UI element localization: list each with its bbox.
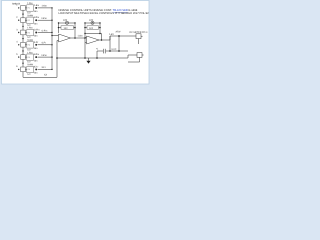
wire sense tap [118,36,120,51]
top rail U2 [85,33,102,40]
wire U2 inverting input down [84,38,86,58]
transistor Q4 [34,41,39,50]
wire U1 inverting input down [57,40,59,42]
svg-text:1-8V: 1-8V [109,33,114,36]
svg-text:InFm: InFm [42,17,47,20]
svg-text:8m: 8m [34,22,37,25]
terminal TB2 [137,53,144,58]
svg-text:DC METER PO 4: DC METER PO 4 [130,31,149,34]
wire U2 output [99,33,136,41]
op-amp U1 [59,34,71,42]
page background [0,0,152,86]
wire channel 6 to bus [38,66,52,69]
terminal TB1 [136,34,143,44]
wire channel 2 to bus [38,17,52,20]
svg-text:O.Fm: O.Fm [34,29,40,32]
title line 1 [59,9,138,12]
title line 2 [59,12,150,15]
wire U2 noninverting input [85,37,87,39]
resistor R8 [84,26,100,30]
module K4 [26,39,34,51]
left bus segment 3 [22,35,23,42]
feedback rail right U1 [74,23,76,38]
svg-text:InFm: InFm [34,16,39,19]
wire rail to TB2 [128,55,137,58]
left bus segment 5 [22,60,23,67]
svg-text:8m: 8m [34,35,37,38]
svg-text:TAFR: TAFR [27,39,33,42]
node bus taps U1 [51,35,58,36]
capacitor C1 [96,48,128,54]
connector J5 [16,53,25,60]
svg-text:XX r: XX r [42,66,47,69]
left bus segment 1 [22,10,23,17]
svg-text:8m: 8m [34,10,37,13]
svg-text:ATF: ATF [89,19,94,22]
wire channel 1 to bus [38,5,52,8]
op-amp U2 [87,36,100,44]
svg-text:TAFR: TAFR [27,64,33,67]
connector J6 [16,65,25,72]
svg-text:S.Fr: S.Fr [34,41,39,44]
left bus to bottom rail [23,72,57,78]
svg-text:1-8m: 1-8m [42,5,47,8]
wire TB2 return [128,57,140,62]
svg-text:1.8m: 1.8m [78,34,83,37]
wire channel 4 to bus [38,42,52,45]
wire output tap [109,36,111,51]
svg-text:8m: 8m [34,59,37,62]
ground rail [56,57,128,59]
svg-text:ATF: ATF [63,19,68,22]
transistor Q2 [34,16,39,25]
svg-text:LOW INPUT MULTIPLEX EXCEL CONT: LOW INPUT MULTIPLEX EXCEL CONTROLS PITTS… [59,12,150,15]
left bus segment 4 [22,47,23,54]
svg-text:XX: XX [44,74,48,77]
node DC out [116,31,122,37]
svg-text:O.Fm: O.Fm [42,29,48,32]
transistor Q3 [34,29,40,38]
feedback rail left U2 [84,23,86,39]
svg-text:ATW: ATW [116,31,122,34]
ground [86,58,90,64]
left bus segment 2 [22,23,23,30]
module K3 [26,27,34,39]
connector J1 [16,4,25,11]
resistor R7 [58,26,76,30]
svg-text:+(: +( [96,48,98,51]
feedback rail right U2 [99,23,101,34]
svg-text:8m: 8m [34,72,37,75]
transistor Q1 [34,4,39,13]
svg-text:1K2: 1K2 [89,27,94,30]
svg-text:8m: 8m [34,47,37,50]
wire U2 lower input stub [85,42,87,44]
collection bus [51,7,52,70]
svg-text:1 Rm: 1 Rm [27,51,33,54]
potentiometer P2 [84,19,100,24]
svg-text:InFm: InFm [34,53,39,56]
module K5 [26,51,34,63]
svg-text:1-8m: 1-8m [34,4,39,7]
connector J3 [16,28,25,35]
svg-text:1 Rm: 1 Rm [27,2,33,5]
wire cap to rail [96,51,98,58]
svg-text:1 Rm: 1 Rm [27,27,33,30]
module K2 [26,14,34,26]
svg-text:S.Fr: S.Fr [42,42,47,45]
svg-text:XX r: XX r [34,65,39,68]
feedback rail left U1 [58,23,60,33]
svg-text:InFm: InFm [42,54,47,57]
svg-text:1K2: 1K2 [64,27,69,30]
wire channel 3 to bus [38,29,52,32]
module K6 [26,64,34,76]
connector J2 [16,16,25,23]
potentiometer P1 [58,19,76,24]
module K1 [26,2,34,14]
transistor Q5 [34,53,39,62]
svg-text:UVC: UVC [112,48,117,51]
svg-text:TAFR: TAFR [27,14,33,17]
wire channel 5 to bus [38,54,52,57]
wire U1 output [71,34,86,38]
connector J4 [16,41,25,48]
transistor Q6 [34,65,39,74]
